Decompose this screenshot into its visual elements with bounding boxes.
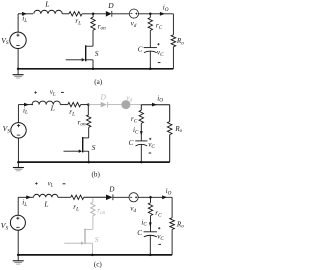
label v_C (c) <box>157 232 164 241</box>
label D (a) <box>107 1 114 10</box>
diode D (a) <box>106 11 112 17</box>
resistor r_C (c) <box>148 203 152 216</box>
wire top-left segment (a) <box>18 13 33 15</box>
inductor plus mark (b) <box>34 91 37 94</box>
label r_C (a) <box>156 22 163 31</box>
wire rC-to-cap (a) <box>149 31 151 48</box>
resistor r_L (a) <box>69 12 82 16</box>
node junction switch branch (a) <box>92 13 95 16</box>
svg-text:(c): (c) <box>94 261 103 269</box>
wire switch-to-rail grey (c) <box>91 243 93 255</box>
label i_L (a) <box>22 15 27 24</box>
label R_o (a) <box>176 37 184 46</box>
node junction r_C branch (a) <box>149 13 152 16</box>
wire ron-to-switch (a) <box>92 30 94 46</box>
diode D (c) <box>106 194 113 200</box>
wire cap-to-rail (b) <box>140 144 142 162</box>
label r_C (b) <box>131 115 138 124</box>
capacitor C (a) <box>144 48 157 53</box>
voltage source V_S (c) <box>1 215 26 231</box>
resistor r_L (b) <box>68 102 81 106</box>
label R_o (b) <box>174 125 182 134</box>
caption (c) <box>94 261 103 269</box>
resistor r_on (b) <box>87 105 91 128</box>
wire source bottom lead (a) <box>17 48 19 68</box>
svg-text:L: L <box>44 0 49 8</box>
node switch-rail junction (b) <box>87 161 90 164</box>
bottom rail (c) <box>18 254 172 256</box>
inactive transistor switch S (c) <box>64 229 92 245</box>
cap plus sign (c) <box>158 227 160 229</box>
svg-text:(a): (a) <box>94 78 103 86</box>
ground (c) <box>13 256 24 265</box>
wire L-to-rL (b) <box>60 104 67 106</box>
label v_L (b) <box>50 89 56 97</box>
inductor L (c) <box>34 194 58 197</box>
resistor r_L (c) <box>71 195 84 199</box>
resistor R_o (a) <box>171 35 176 47</box>
ground (b) <box>13 162 24 171</box>
output-current arrow i_O (c) <box>162 195 167 199</box>
voltage source V_S (a) <box>1 32 26 48</box>
resistor R_o (c) <box>170 218 175 230</box>
wire source bottom lead (b) <box>17 138 19 162</box>
label i_O (c) <box>166 187 172 196</box>
wire ron-to-switch grey (c) <box>92 216 94 230</box>
wire D-to-vd (c) <box>113 196 129 198</box>
wire corner-to-right (b) <box>141 104 169 106</box>
label r_on (b) <box>78 118 86 127</box>
wire L-to-rL (a) <box>62 13 69 15</box>
capacitor-current arrow i_C (c) <box>149 222 152 227</box>
label L (a) <box>44 0 49 8</box>
label v_d grey (b) <box>126 94 132 103</box>
wire right vertical (a) <box>172 14 174 69</box>
label i_L (c) <box>22 199 27 208</box>
resistor R_o (b) <box>167 122 172 135</box>
wire rL-to-node (a) <box>82 13 106 15</box>
wire rC-to-cap (c) <box>150 216 152 232</box>
label S grey (c) <box>95 235 99 244</box>
voltage source V_S (b) <box>3 123 27 138</box>
svg-text:D: D <box>107 1 114 10</box>
inductor L (a) <box>34 10 62 14</box>
svg-text:D: D <box>108 185 115 193</box>
bottom rail (a) <box>18 68 173 70</box>
svg-text:L: L <box>43 200 48 209</box>
resistor r_C (a) <box>148 18 152 31</box>
label C (a) <box>138 46 143 54</box>
wire right vertical (c) <box>171 197 173 255</box>
label v_d (a) <box>131 20 137 29</box>
resistor r_C (b) <box>139 110 143 123</box>
inductor-current arrow i_L (a) <box>22 12 27 16</box>
capacitor C (b) <box>135 141 147 146</box>
node source-rail junction (a) <box>17 68 20 71</box>
wire L-to-rL (c) <box>58 196 71 198</box>
transistor switch S (a) <box>66 45 93 61</box>
inductor minus mark (b) <box>61 91 64 93</box>
wire rC branch top (a) <box>149 14 151 18</box>
bottom rail (b) <box>18 161 169 163</box>
label S (a) <box>95 49 99 58</box>
label r_L (c) <box>73 203 79 212</box>
inductor-current arrow i_L (c) <box>26 195 31 199</box>
label v_C (b) <box>148 140 155 149</box>
inductor minus mark (c) <box>63 183 66 185</box>
wire rC branch top (c) <box>150 197 152 203</box>
inactive diode D (b) <box>88 102 107 108</box>
label r_on (a) <box>98 22 106 31</box>
label C (c) <box>137 229 142 237</box>
node cap-rail junction (a) <box>149 68 152 71</box>
wire rC-to-cap (b) <box>140 123 142 140</box>
diode-drop source v_d (a) <box>129 9 138 18</box>
label v_C (a) <box>157 48 164 57</box>
label i_C (c) <box>141 218 147 227</box>
node source-rail junction (b) <box>17 161 20 164</box>
svg-text:S: S <box>95 235 99 244</box>
wire source top lead (b) <box>17 105 19 123</box>
cap plus sign (b) <box>149 138 151 140</box>
label r_on grey (c) <box>97 206 105 215</box>
inductor L (b) <box>32 101 60 105</box>
label i_L (b) <box>23 106 28 115</box>
wire rC branch top (b) <box>140 105 142 111</box>
ground (a) <box>13 69 24 78</box>
svg-text:C: C <box>138 46 143 54</box>
node source-rail junction (c) <box>17 254 20 257</box>
node cap-rail junction (c) <box>149 254 152 257</box>
inactive resistor r_on (c) <box>91 198 95 216</box>
inductor plus mark (c) <box>35 182 38 185</box>
diode-drop source v_d (c) <box>129 193 138 202</box>
wire switch-to-rail (b) <box>88 151 90 162</box>
wire ron-to-switch (b) <box>88 127 90 138</box>
inactive source v_d disc (b) <box>108 100 142 109</box>
wire source top lead (c) <box>17 197 19 215</box>
label r_C (c) <box>155 209 162 218</box>
wire top-left segment (b) <box>18 104 33 106</box>
label i_C (b) <box>133 126 139 135</box>
wire cap-to-rail (a) <box>149 51 151 69</box>
wire D-to-vd (a) <box>112 13 130 15</box>
cap minus sign (b) <box>149 152 152 154</box>
transistor switch S (b) <box>64 137 89 153</box>
label i_O (b) <box>157 94 163 103</box>
inductor-current arrow i_L (b) <box>24 103 29 107</box>
output-current arrow i_O (b) <box>152 103 157 107</box>
label r_L (b) <box>69 108 75 117</box>
wire right vertical (b) <box>169 105 171 163</box>
svg-text:L: L <box>50 104 55 113</box>
wire vd-to-corner (c) <box>138 196 172 198</box>
label R_o (c) <box>176 220 184 229</box>
cap minus sign (c) <box>158 243 161 245</box>
capacitor C (c) <box>144 232 157 237</box>
wire switch-to-rail (a) <box>92 60 94 69</box>
node cap-rail junction (b) <box>140 161 143 164</box>
svg-text:S: S <box>92 143 96 152</box>
svg-text:C: C <box>129 139 134 147</box>
resistor r_on (a) <box>91 14 95 30</box>
node switch-rail junction (a) <box>92 68 95 71</box>
wire source bottom lead (c) <box>17 230 19 255</box>
wire vd-to-corner (a) <box>139 13 174 15</box>
label C (b) <box>129 139 134 147</box>
cap minus sign (a) <box>158 62 161 64</box>
svg-text:D: D <box>100 94 107 102</box>
label D (c) <box>108 185 115 193</box>
svg-text:(b): (b) <box>92 171 101 179</box>
capacitor-current arrow i_C (b) <box>140 131 143 136</box>
caption (b) <box>92 171 101 179</box>
svg-text:S: S <box>95 49 99 58</box>
wire top-left segment (c) <box>18 196 33 198</box>
caption (a) <box>94 78 103 86</box>
label i_O (a) <box>163 3 169 12</box>
output-current arrow i_O (a) <box>160 12 165 16</box>
label D grey (b) <box>100 94 107 102</box>
wire rL-to-node (c) <box>84 196 106 198</box>
label L (c) <box>43 200 48 209</box>
wire source top lead (a) <box>17 14 19 32</box>
wire rL-to-node (b) <box>81 104 89 106</box>
label L (b) <box>50 104 55 113</box>
cap plus sign (a) <box>157 43 159 45</box>
node junction switch branch (b) <box>87 103 90 106</box>
node junction r_C branch (c) <box>149 196 152 199</box>
node switch-rail junction (c) <box>91 254 94 257</box>
svg-text:C: C <box>137 229 142 237</box>
label v_d (c) <box>130 204 136 213</box>
label r_L (a) <box>75 17 81 26</box>
label S (b) <box>92 143 96 152</box>
label v_L (c) <box>48 180 54 188</box>
wire cap-to-rail (c) <box>149 235 151 255</box>
